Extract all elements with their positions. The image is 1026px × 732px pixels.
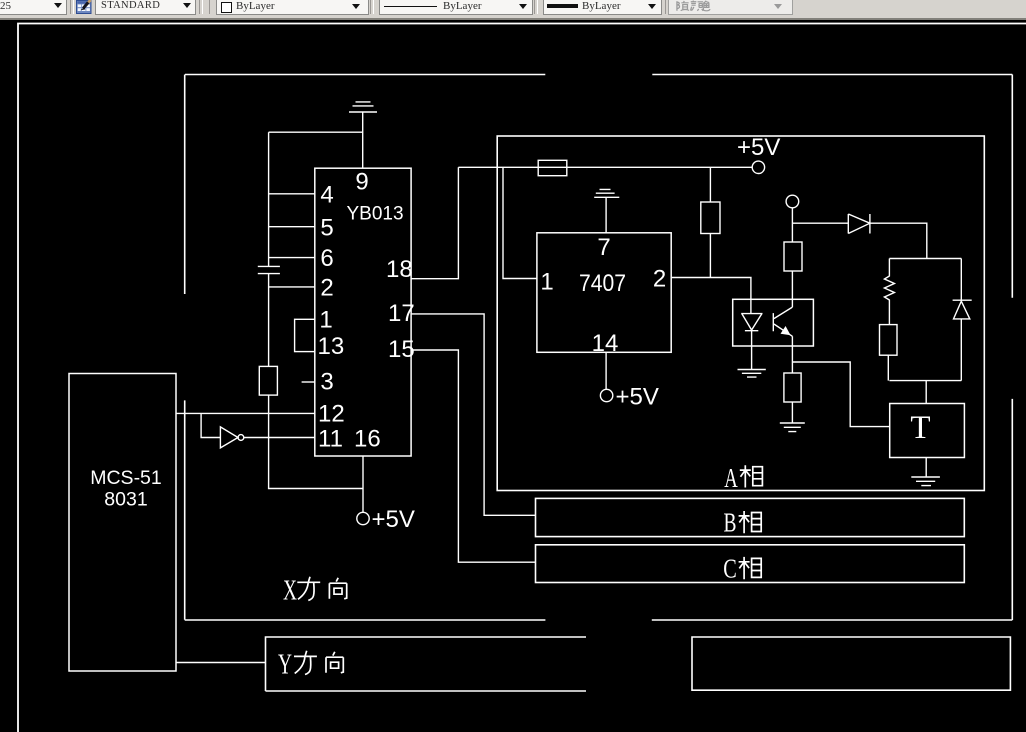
wire emitter junction: [792, 336, 889, 426]
svg-text:4: 4: [320, 181, 333, 208]
svg-text:B: B: [724, 508, 737, 538]
wire YB013 pin 18 to +5V rail: [411, 167, 458, 278]
combobox dim style "25": [0, 0, 67, 15]
wire LED cathode to ground: [751, 331, 753, 370]
toolbar: [0, 0, 1026, 18]
diode D2: [792, 214, 870, 234]
svg-text:T: T: [910, 410, 930, 446]
svg-text:+5V: +5V: [372, 506, 415, 533]
ground GND2 at 7407 pin 7: [594, 189, 619, 232]
resistor R3 pull-up: [701, 167, 720, 277]
wire MCS-51 to Y方向 box: [176, 662, 266, 664]
svg-text:MCS-51: MCS-51: [90, 467, 162, 489]
+5V terminal at 7407 pin 14: [600, 352, 658, 410]
wire D2 to RC network: [870, 223, 927, 258]
svg-text:15: 15: [388, 336, 415, 363]
label X方向: [283, 576, 347, 607]
IC U1 7407: [537, 233, 671, 357]
text style icon: [76, 0, 93, 14]
+5V terminal at YB013 pin 16: [357, 456, 415, 533]
wire inverter to YB013 pin 11: [244, 437, 315, 439]
svg-text:2: 2: [653, 266, 666, 293]
wire MCS-51 to YB013 pin 12: [176, 412, 315, 414]
svg-text:X: X: [283, 576, 297, 607]
B相 phase box: [536, 498, 965, 536]
svg-text:7: 7: [597, 234, 610, 261]
resistor R6 zigzag: [884, 259, 894, 325]
resistor R1: [259, 366, 277, 395]
combobox lineweight ByLayer: [543, 0, 662, 15]
svg-text:YB013: YB013: [346, 204, 403, 225]
svg-text:+5V: +5V: [737, 134, 780, 161]
svg-text:11: 11: [318, 426, 343, 453]
svg-text:9: 9: [355, 169, 368, 196]
svg-text:6: 6: [320, 245, 333, 272]
capacitor C1: [258, 266, 280, 273]
svg-text:A: A: [724, 463, 738, 493]
terminal circle above R4: [786, 195, 799, 208]
diode D3: [953, 259, 972, 381]
svg-text:2: 2: [320, 275, 333, 302]
resistor R5: [784, 373, 801, 423]
svg-text:+5V: +5V: [616, 384, 659, 411]
wire R1 to +5V node: [269, 395, 363, 488]
svg-text:7407: 7407: [579, 270, 626, 297]
wire pin 6: [269, 257, 315, 259]
svg-text:13: 13: [318, 333, 345, 360]
transformer T: [890, 404, 965, 458]
+5V terminal T1: [737, 134, 780, 174]
+5V rail wire: [458, 166, 752, 168]
ground GND3: [738, 370, 766, 378]
wire pin 2: [269, 286, 315, 288]
svg-text:5: 5: [320, 215, 333, 242]
resistor R4: [784, 242, 802, 271]
wire bottom node to transformer T: [925, 381, 927, 404]
Y方向 subsystem box: [266, 637, 1011, 691]
microcontroller U5 MCS-51 8031: [69, 374, 176, 672]
svg-text:14: 14: [592, 330, 619, 357]
svg-text:12: 12: [318, 401, 345, 428]
pin 3 stub: [302, 381, 315, 383]
label Y方向: [278, 650, 343, 681]
svg-text:18: 18: [386, 256, 413, 283]
inverter U6: [201, 413, 244, 448]
wire collector to R4 and terminal: [791, 208, 793, 307]
combobox layer color ByLayer: [216, 0, 369, 15]
svg-text:16: 16: [354, 426, 381, 453]
label A相: [724, 463, 762, 493]
crystal box at pins 1-13: [295, 319, 315, 351]
label C相: [723, 554, 761, 584]
svg-text:C: C: [723, 554, 737, 584]
RC network bottom node: [889, 380, 961, 382]
svg-text:17: 17: [388, 300, 415, 327]
ground GND5 under T: [911, 458, 940, 486]
A相 phase box: [497, 136, 984, 491]
combobox plot style (disabled): [668, 0, 793, 15]
wire 7407 pin 2 to optocoupler: [671, 278, 751, 314]
ground GND4: [780, 423, 805, 432]
svg-text:3: 3: [320, 369, 333, 396]
optocoupler U3: [733, 299, 814, 346]
wire +5V rail to 7407 pin 1: [503, 167, 537, 278]
combobox linetype ByLayer: [379, 0, 533, 15]
resistor R7: [880, 325, 898, 381]
ground GND1 at YB013 pin 9: [349, 102, 377, 168]
label B相: [724, 508, 762, 538]
wire YB013 pin 17 to B相: [411, 314, 535, 515]
wire YB013 pin 15 to C相: [411, 350, 535, 562]
X方向 subsystem box: [185, 75, 1013, 621]
wire pin 5: [269, 226, 315, 228]
wire bus tap to ground stem: [269, 131, 363, 133]
IC U2 YB013: [315, 168, 411, 456]
svg-text:Y: Y: [278, 650, 292, 681]
resistor R2: [538, 160, 567, 175]
svg-text:8031: 8031: [104, 489, 147, 511]
svg-text:1: 1: [540, 269, 553, 296]
C相 phase box: [536, 545, 965, 583]
RC network top node: [889, 258, 961, 260]
combobox STANDARD: [95, 0, 196, 15]
wire pin 4: [269, 193, 315, 195]
bus wire left of YB013: [268, 132, 270, 366]
svg-text:1: 1: [319, 307, 332, 334]
